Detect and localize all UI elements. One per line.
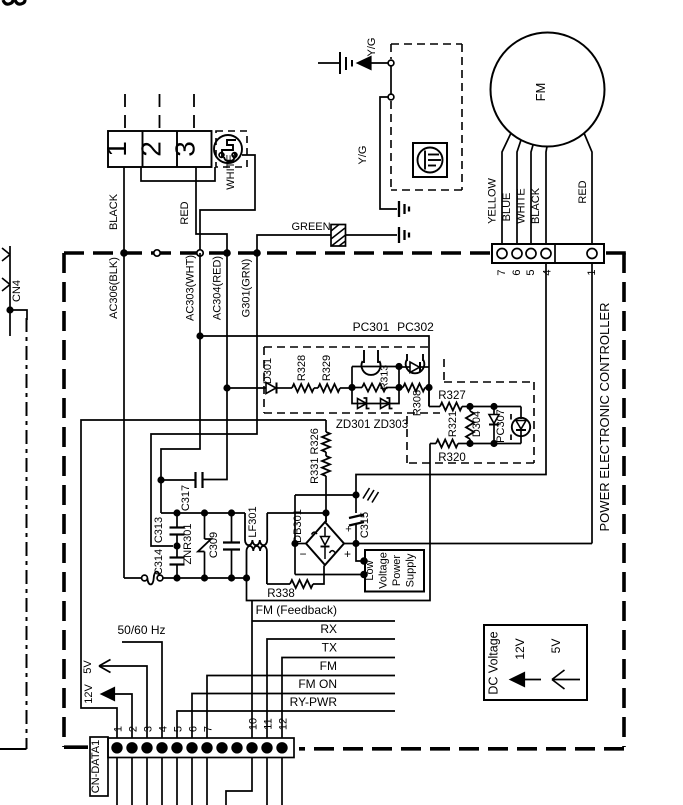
svg-text:+: +: [344, 547, 351, 561]
capacitor C309: [228, 509, 235, 516]
plus rail to FM pin1: [344, 543, 592, 545]
top bus: [161, 512, 245, 514]
resistor R331: [325, 452, 327, 456]
svg-text:5V: 5V: [549, 639, 563, 654]
svg-text:3: 3: [143, 726, 155, 732]
thermal cutout squiggle: [142, 575, 148, 581]
svg-text:YELLOW: YELLOW: [487, 177, 499, 223]
svg-text:DC Voltage: DC Voltage: [487, 631, 501, 694]
svg-text:WHITE: WHITE: [225, 154, 237, 189]
svg-text:7: 7: [203, 726, 215, 732]
svg-text:C313: C313: [153, 517, 165, 543]
legend DC Voltage: [484, 625, 587, 700]
svg-text:2: 2: [136, 141, 167, 157]
border terminals: [120, 249, 128, 257]
svg-text:12: 12: [278, 718, 290, 730]
net AC303(WHT): [161, 253, 200, 513]
node circle on enclosure: [388, 94, 394, 100]
resistor R328: [292, 384, 314, 392]
ground symbol (lower): [398, 234, 399, 236]
resistor R321: [469, 407, 471, 412]
wire CN-DATA1 pin1 riser: [81, 420, 326, 738]
protective earth symbol: [413, 143, 447, 177]
svg-text:6: 6: [188, 726, 200, 732]
svg-text:FM ON: FM ON: [298, 677, 337, 691]
svg-text:Y/G: Y/G: [357, 146, 369, 165]
svg-text:Voltage: Voltage: [378, 552, 390, 589]
svg-text:FM: FM: [533, 83, 548, 102]
svg-text:4: 4: [542, 269, 554, 275]
Low Voltage Power Supply: [356, 544, 364, 562]
wire BLACK: [123, 167, 125, 251]
ground Y/G with arrow: [318, 62, 340, 64]
wire to D301: [227, 387, 266, 389]
wire R308 to R327: [428, 388, 430, 407]
svg-text:R338: R338: [267, 588, 295, 600]
svg-text:CN-DATA1: CN-DATA1: [90, 740, 102, 793]
resistor R326: [325, 420, 327, 432]
svg-text:RX: RX: [320, 622, 337, 636]
svg-text:DB301: DB301: [292, 509, 304, 543]
svg-text:PC302: PC302: [397, 320, 434, 334]
svg-text:5: 5: [173, 726, 185, 732]
svg-text:4: 4: [158, 726, 170, 732]
svg-text:11: 11: [263, 718, 275, 729]
wire RED: [196, 167, 227, 251]
svg-text:RED: RED: [577, 180, 589, 203]
dashed box PC301/PC302: [264, 346, 430, 348]
appliance inlet plug symbol: [214, 135, 242, 163]
motor wires: [502, 133, 511, 244]
svg-text:ZD301 ZD303: ZD301 ZD303: [336, 419, 408, 431]
svg-text:BLACK: BLACK: [108, 193, 120, 230]
svg-text:GREEN: GREEN: [291, 221, 330, 233]
zener ZD301: [352, 388, 399, 404]
wire GREEN with connector: [257, 235, 331, 251]
svg-text:Y/G: Y/G: [366, 38, 378, 57]
motor FM: [491, 33, 605, 147]
svg-text:AC304(RED): AC304(RED): [212, 256, 224, 320]
svg-text:G301(GRN): G301(GRN): [241, 259, 253, 318]
node right of PC301: [395, 384, 402, 391]
wire AC303 to PC302: [200, 336, 429, 407]
svg-text:R328: R328: [296, 355, 308, 381]
signal lines to CN-DATA1: [251, 601, 253, 738]
svg-text:AC303(WHT): AC303(WHT): [185, 255, 197, 321]
connector block pins 1 2 3: [108, 131, 212, 167]
svg-text:+: +: [345, 524, 351, 536]
net AC306(BLK): [123, 253, 125, 578]
svg-text:Supply: Supply: [405, 553, 417, 587]
connector housing bracket: [141, 167, 215, 181]
svg-text:10: 10: [248, 718, 260, 730]
hatched connector symbol: [331, 225, 346, 247]
svg-text:D304: D304: [471, 411, 483, 437]
page corner fragment: [3, 0, 13, 4]
wires below connector: [116, 758, 118, 805]
svg-text:6: 6: [511, 269, 523, 275]
svg-text:5V: 5V: [82, 660, 94, 674]
svg-text:12V: 12V: [513, 638, 527, 659]
diode D304: [470, 406, 494, 408]
svg-text:−: −: [299, 547, 306, 561]
svg-text:WHITE: WHITE: [516, 188, 528, 223]
capacitor C317: [161, 479, 196, 481]
svg-text:Low: Low: [364, 560, 376, 580]
resistor R320: [430, 443, 436, 445]
resistor R313: [352, 387, 362, 389]
connector CN-DATA1 body: [108, 738, 294, 758]
svg-text:BLACK: BLACK: [530, 187, 542, 224]
svg-text:AC306(BLK): AC306(BLK): [108, 257, 120, 319]
wire Y/G down: [380, 97, 397, 209]
bottom bus: [124, 577, 142, 579]
svg-text:R329: R329: [321, 355, 333, 381]
chain boundary line: [26, 318, 28, 749]
bridge rectifier DB301: [306, 522, 344, 565]
dashed box around plug: [216, 131, 247, 167]
svg-text:POWER ELECTRONIC CONTROLLER: POWER ELECTRONIC CONTROLLER: [597, 303, 612, 532]
svg-text:LF301: LF301: [247, 506, 259, 537]
bottom wire of PC307 cell: [470, 443, 521, 445]
svg-text:TX: TX: [322, 641, 337, 655]
dashed box PC307: [443, 359, 445, 382]
connector CN4: [9, 246, 11, 336]
svg-text:C315: C315: [359, 512, 371, 538]
svg-text:Power: Power: [391, 555, 403, 587]
diode D301: [266, 383, 276, 394]
svg-text:2: 2: [128, 726, 140, 732]
wire WHITE: [200, 155, 255, 250]
svg-text:RED: RED: [179, 201, 191, 224]
svg-text:R327: R327: [438, 390, 466, 402]
opto PC302: [406, 360, 425, 373]
svg-text:R331 R326: R331 R326: [309, 428, 321, 484]
zener ZD303: [381, 399, 390, 409]
opto PC307: [494, 406, 521, 408]
svg-text:1: 1: [113, 726, 125, 732]
svg-text:RY-PWR: RY-PWR: [290, 695, 338, 709]
svg-text:5: 5: [525, 269, 537, 275]
capacitor C314: [173, 542, 180, 549]
line filter LF301: [245, 513, 267, 545]
svg-text:BLUE: BLUE: [501, 193, 513, 222]
capacitor C315: [352, 491, 359, 498]
svg-text:PC307: PC307: [495, 409, 507, 443]
svg-text:7: 7: [496, 269, 508, 275]
FM pin4 wire: [356, 263, 546, 495]
svg-text:PC301: PC301: [353, 320, 390, 334]
svg-text:3: 3: [170, 141, 201, 157]
node left of PC301: [348, 384, 355, 391]
dashed enclosure top right: [391, 43, 462, 45]
resistor R327: [440, 403, 462, 411]
svg-text:R313: R313: [379, 365, 391, 390]
svg-text:C309: C309: [208, 532, 220, 558]
svg-text:C314: C314: [153, 549, 165, 575]
svg-text:C317: C317: [180, 485, 192, 511]
svg-text:R321: R321: [447, 411, 459, 437]
power electronic controller dashed border: [64, 251, 490, 255]
varistor ZNR301: [201, 509, 208, 516]
resistor R329: [318, 384, 340, 392]
net G301(GRN): [151, 253, 257, 546]
resistor R308: [399, 387, 403, 389]
svg-text:1: 1: [101, 141, 132, 157]
svg-text:ZNR301: ZNR301: [182, 524, 194, 565]
dashed leads above connector: [124, 94, 126, 131]
resistor R338: [267, 583, 290, 585]
opto PC301: [351, 367, 353, 388]
svg-text:FM: FM: [320, 659, 337, 673]
connector CN-DATA1 label box: [90, 737, 108, 796]
svg-text:CN4: CN4: [11, 280, 23, 302]
motor connector: [492, 244, 604, 263]
svg-text:FM (Feedback): FM (Feedback): [256, 603, 337, 617]
svg-text:50/60 Hz: 50/60 Hz: [117, 623, 165, 637]
net AC304(RED): [203, 253, 227, 480]
R320 return wire: [247, 444, 431, 601]
ground symbol (upper): [398, 201, 400, 217]
svg-text:12V: 12V: [83, 684, 95, 704]
capacitor C313: [173, 509, 180, 516]
minus rail: [291, 540, 298, 547]
